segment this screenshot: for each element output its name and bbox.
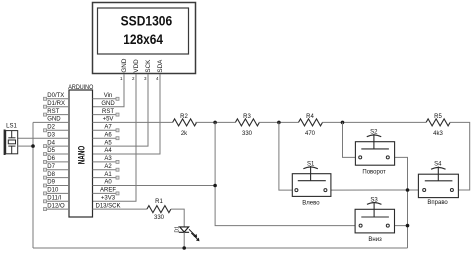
svg-text:+5V: +5V <box>103 117 114 123</box>
pin RST right <box>93 114 117 116</box>
svg-text:D10: D10 <box>47 188 59 194</box>
pin AREF <box>93 192 117 194</box>
svg-text:D3: D3 <box>47 132 55 138</box>
svg-text:D4: D4 <box>47 140 55 146</box>
pushbutton S3 <box>355 202 394 233</box>
svg-text:128x64: 128x64 <box>123 31 163 47</box>
svg-text:D5: D5 <box>47 148 55 154</box>
NANO pins are drawn by groups below <box>18 99 215 209</box>
wire R4 to node C to R5 <box>322 121 426 123</box>
svg-text:1: 1 <box>120 76 123 81</box>
svg-text:SSD1306: SSD1306 <box>121 13 173 29</box>
wire D13/SCK row to R1 <box>93 208 147 210</box>
wire ground rail left vertical <box>32 122 34 248</box>
wire R3 to node B to R4 <box>259 121 299 123</box>
svg-text:D0/TX: D0/TX <box>47 93 64 99</box>
NANO unconnected right pin terminals <box>116 97 119 195</box>
svg-text:2k: 2k <box>181 131 188 137</box>
resistor R3 <box>235 119 259 126</box>
svg-text:A0: A0 <box>104 180 112 186</box>
wire S2 right to common rail <box>388 157 408 248</box>
pin GND left wire to ground rail <box>33 121 69 123</box>
pin D7 <box>47 169 70 171</box>
junction LS1/ground <box>31 144 35 148</box>
junction common/S3 <box>406 224 410 228</box>
svg-text:Влево: Влево <box>302 200 320 206</box>
svg-text:R3: R3 <box>243 114 251 120</box>
resistor R1 <box>147 206 171 213</box>
svg-text:470: 470 <box>305 131 316 137</box>
resistor R4 <box>299 119 323 126</box>
NANO right pin labels <box>95 93 120 209</box>
svg-text:R4: R4 <box>306 114 314 120</box>
svg-text:D9: D9 <box>47 180 55 186</box>
wire node A vertical to S3 row <box>215 122 361 225</box>
resistor R5 <box>426 119 450 126</box>
svg-text:RST: RST <box>47 109 59 115</box>
pushbutton S2 <box>355 134 394 165</box>
svg-text:A6: A6 <box>104 132 112 138</box>
svg-text:3: 3 <box>144 76 147 81</box>
svg-text:D13/SCK: D13/SCK <box>95 203 120 209</box>
svg-text:GND: GND <box>47 117 61 123</box>
junction LED/ground <box>182 246 186 250</box>
svg-text:LS1: LS1 <box>6 123 17 129</box>
pin RST left <box>47 114 70 116</box>
svg-text:D1/RX: D1/RX <box>47 101 65 107</box>
svg-text:D7: D7 <box>47 164 55 170</box>
pin D0/TX <box>47 98 70 100</box>
pin D6 <box>47 161 70 163</box>
svg-text:4: 4 <box>156 76 159 81</box>
pin D8 <box>47 177 70 179</box>
wire node B vertical to S1 left <box>279 122 297 190</box>
IC U1 ARDUINO NANO body <box>69 90 93 217</box>
svg-text:Вниз: Вниз <box>368 237 382 243</box>
svg-text:A2: A2 <box>104 164 112 170</box>
junction common/S4 <box>406 188 410 192</box>
svg-text:A5: A5 <box>104 140 112 146</box>
svg-text:RST: RST <box>102 109 114 115</box>
svg-text:A1: A1 <box>104 172 112 178</box>
wire OLED SDA pin4 to NANO A4 <box>93 74 161 154</box>
OLED display screen area <box>98 8 189 54</box>
pin D1/RX <box>47 106 70 108</box>
junction node B <box>277 121 281 125</box>
pin D11 <box>47 200 70 202</box>
pin D5 <box>47 153 70 155</box>
OLED display module SSD1306 outer body <box>93 3 196 74</box>
pushbutton S1 <box>292 166 331 196</box>
pin A6 <box>93 137 117 139</box>
junction node A / A0 <box>213 184 217 188</box>
NANO left pin labels <box>47 93 65 209</box>
wire OLED VDD pin2 to NANO +3V3 <box>93 74 137 201</box>
svg-text:SCK: SCK <box>145 59 152 73</box>
wire R5 to S4 right <box>450 122 470 190</box>
junction node A top <box>213 121 217 125</box>
pin D10 <box>47 192 70 194</box>
svg-text:AREF: AREF <box>100 188 116 194</box>
pin D4 <box>47 145 70 147</box>
svg-text:330: 330 <box>242 131 253 137</box>
pin D2 <box>47 129 70 131</box>
wire R1 to LED <box>171 209 184 227</box>
svg-text:D6: D6 <box>47 156 55 162</box>
pin Vin <box>93 98 117 100</box>
wire +5V row to R2 <box>93 121 173 123</box>
svg-text:Поворот: Поворот <box>362 170 386 176</box>
svg-text:D12/O: D12/O <box>47 203 65 209</box>
wire A0 row to ladder node A <box>93 185 216 187</box>
svg-text:A4: A4 <box>104 148 112 154</box>
pin D3 wire to buzzer LS1 <box>18 137 69 139</box>
pin A2 <box>93 169 117 171</box>
wire S1 right to S4 left <box>325 189 426 191</box>
pin A3 <box>93 161 117 163</box>
wire S3 right to common rail <box>388 225 408 227</box>
svg-text:ARDUINO: ARDUINO <box>68 84 93 91</box>
svg-text:A7: A7 <box>104 125 112 131</box>
svg-text:4k3: 4k3 <box>433 131 443 137</box>
pin A1 <box>93 177 117 179</box>
wire node C vertical to S2 left <box>343 122 361 157</box>
pin D9 <box>47 185 70 187</box>
buzzer LS1 piezo speaker symbol <box>4 130 18 156</box>
wire ground rail bottom <box>33 247 408 249</box>
pin A7 <box>93 129 117 131</box>
pushbutton S4 <box>418 167 458 198</box>
LED D1 symbol <box>179 227 198 240</box>
svg-text:Вправо: Вправо <box>427 200 448 206</box>
svg-text:SDA: SDA <box>157 59 164 73</box>
wire LED cathode to ground rail <box>183 232 185 248</box>
svg-text:D8: D8 <box>47 172 55 178</box>
svg-text:+3V3: +3V3 <box>101 196 116 202</box>
svg-text:VDD: VDD <box>133 59 140 73</box>
svg-text:NANO: NANO <box>77 146 87 165</box>
svg-text:D2: D2 <box>47 125 55 131</box>
svg-text:R1: R1 <box>155 199 163 205</box>
pin D12 <box>47 208 70 210</box>
svg-text:GND: GND <box>121 58 128 72</box>
wire OLED GND pin1 to NANO GND <box>93 74 125 107</box>
svg-text:D11/I: D11/I <box>47 196 61 202</box>
wire R2 to node A <box>195 121 235 123</box>
svg-text:330: 330 <box>154 215 165 221</box>
svg-text:GND: GND <box>101 101 115 107</box>
LED D1 arrow heads <box>194 234 198 238</box>
NANO unconnected left pin terminals <box>44 97 47 210</box>
svg-text:2: 2 <box>132 76 135 81</box>
svg-text:Vin: Vin <box>104 93 113 99</box>
resistor R2 <box>173 119 197 126</box>
wire LS1 bottom pin to ground rail <box>18 145 33 147</box>
svg-text:R2: R2 <box>180 114 188 120</box>
svg-text:A3: A3 <box>104 156 112 162</box>
junction node C <box>341 121 345 125</box>
wire OLED SCK pin3 to NANO A5 <box>93 74 149 146</box>
